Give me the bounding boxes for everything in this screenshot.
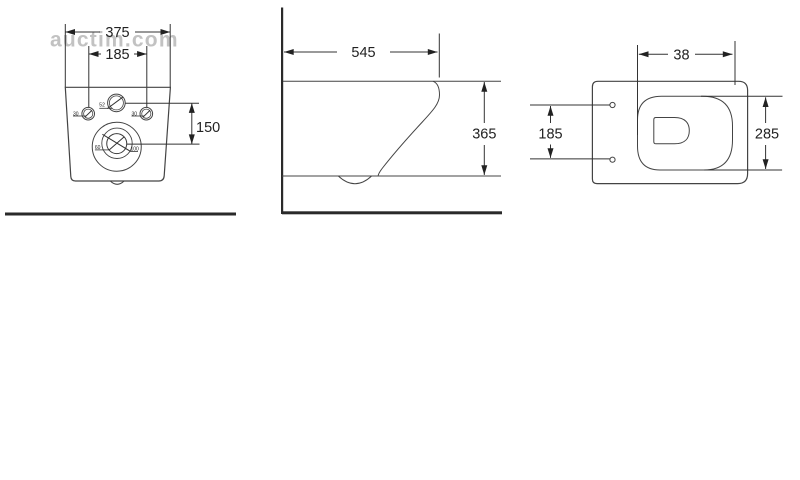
svg-text:60: 60 (95, 145, 101, 151)
dim 185 extension line right (146, 46, 148, 107)
bolt hole left (82, 107, 95, 120)
drain inner circle (107, 134, 127, 154)
reference line drain to 150 dim (127, 143, 200, 145)
toilet top edge + top reference line (283, 80, 501, 82)
svg-text:285: 285 (755, 127, 779, 143)
svg-text:375: 375 (105, 25, 129, 41)
dim 375 arrows (65, 29, 75, 35)
dim 375 extension line right (169, 24, 171, 87)
dim 38 arrows (639, 51, 649, 57)
toilet back S-curve (378, 95, 439, 176)
dim 375 line (65, 31, 100, 33)
bolt hole right (140, 107, 153, 120)
dim 285 reference lines (701, 95, 783, 97)
dim 38 extension lines (637, 45, 639, 135)
svg-text:545: 545 (351, 45, 375, 61)
toilet bottom edge + bottom reference line (282, 175, 501, 177)
body rounded rect (592, 81, 747, 183)
svg-text:100: 100 (131, 147, 140, 153)
bowl outline (638, 96, 733, 170)
fixing hole bottom (610, 157, 615, 162)
svg-text:150: 150 (196, 120, 220, 136)
reference line inlet to 150 dim (125, 102, 199, 104)
drain X leader to label 60 (109, 137, 124, 150)
dim 185 extension line left (88, 46, 90, 107)
floor line left view (5, 213, 236, 216)
inlet slash leader (107, 97, 123, 109)
dim 545 extension line right (438, 34, 440, 78)
inlet hole circle (108, 94, 126, 112)
svg-text:38: 38 (673, 47, 689, 63)
svg-text:365: 365 (472, 127, 496, 143)
dim 365 line (483, 82, 485, 123)
svg-text:185: 185 (105, 47, 129, 63)
dim 38 line (639, 53, 668, 55)
dim 375 extension line left (64, 24, 66, 87)
dim 185 arrows (548, 106, 554, 116)
dim 185 line (89, 53, 101, 55)
bottom bump (110, 181, 124, 184)
dim 545 line (284, 51, 337, 53)
dim 285 line (765, 97, 767, 123)
drain outer circle (92, 122, 141, 171)
svg-text:185: 185 (538, 127, 562, 143)
fixing hole top (610, 102, 615, 107)
drain X leader to label 100 (102, 134, 130, 151)
trap bump arc (338, 176, 371, 184)
wall line (281, 8, 283, 215)
drain middle circle (102, 128, 132, 158)
toilet front corner curve (433, 81, 440, 95)
svg-text:52: 52 (99, 103, 105, 109)
dim 185 line (550, 106, 552, 123)
dim 285 arrows (763, 97, 769, 107)
dim 185 arrows (89, 51, 99, 57)
dim 185 reference lines (530, 104, 610, 106)
toilet rear body outline (65, 87, 170, 181)
floor line side view (282, 211, 502, 214)
dim 150 line (191, 103, 193, 144)
inner water area D shape (654, 118, 690, 144)
